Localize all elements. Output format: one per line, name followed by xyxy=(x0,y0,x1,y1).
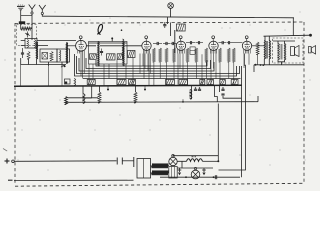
wire choke left lead xyxy=(177,161,186,168)
dashed enclosure border bottom xyxy=(15,183,304,186)
IF transformer secondary winding (x123) xyxy=(123,42,124,67)
terminal blob xyxy=(309,34,312,37)
tube V3 xyxy=(176,41,185,50)
tube V2 top cap xyxy=(145,36,148,41)
resistor box R22 xyxy=(117,80,126,85)
IF shield box xyxy=(89,42,128,65)
diode load resistor R12 xyxy=(186,48,189,62)
wire PS bottom rail xyxy=(160,176,240,178)
IF2 tall winding xyxy=(123,39,124,59)
output transformer primary xyxy=(264,41,265,60)
capacitor C16 xyxy=(198,87,201,90)
resistor R1 xyxy=(27,52,30,60)
speaker transformer core xyxy=(281,44,282,60)
tube V3 pin leads xyxy=(178,49,184,54)
battery plus sign xyxy=(5,159,10,164)
wire OT bottom leads xyxy=(264,59,269,65)
wire C13 to V5 grid xyxy=(233,42,242,44)
capacitor C13 xyxy=(227,41,234,44)
wire antenna A2 to top line xyxy=(42,15,48,17)
pencil mark xyxy=(3,149,7,152)
tube V1 pin leads xyxy=(78,50,84,54)
capacitor C10 xyxy=(186,41,195,44)
inductance script letter l xyxy=(97,24,102,34)
tube V1 xyxy=(76,40,87,51)
wire bus loop 3 xyxy=(79,58,214,71)
junction dot xyxy=(144,86,146,91)
tube V4 top cap xyxy=(212,36,215,41)
dashed enclosure border right xyxy=(303,22,305,183)
wire grid cap feeds xyxy=(86,45,122,47)
tall wire x174.8 xyxy=(174,30,176,53)
junction dot below output xyxy=(255,64,265,66)
choke winding on bus xyxy=(74,79,75,86)
padder capacitor C2 xyxy=(21,48,24,58)
volume control box xyxy=(190,47,195,54)
wire top of IF xyxy=(89,42,128,44)
tube V1 top cap xyxy=(79,36,82,41)
fuse connector top xyxy=(117,158,133,165)
rectifier tube V6 xyxy=(169,155,177,166)
battery plus terminal xyxy=(12,160,15,163)
dashed enclosure border left xyxy=(14,23,16,185)
wire windings joins xyxy=(151,166,170,173)
filter capacitor C21 plus diode mark xyxy=(178,168,182,175)
resistor R14 xyxy=(205,48,208,62)
speaker dashed box xyxy=(273,38,304,63)
ballast tube V7 xyxy=(191,167,200,179)
wire cluster2 bottom link xyxy=(223,96,241,98)
wire R18 lower lead xyxy=(257,55,259,65)
battery minus sign xyxy=(8,179,13,181)
bias cell coil xyxy=(190,90,192,100)
wire cluster2 step lead xyxy=(215,86,218,102)
dashed gang box xyxy=(17,25,37,46)
wire drops to bus xyxy=(21,54,249,86)
capacitor C18 xyxy=(221,94,224,95)
tube V3 top cap xyxy=(179,36,182,41)
wire heater line upper xyxy=(66,97,98,98)
wire below output xyxy=(254,64,304,66)
wire xyxy=(21,24,32,29)
resistor R2 hatch xyxy=(50,52,53,61)
coupling capacitor C8 xyxy=(163,42,170,45)
wire minus lead xyxy=(14,179,134,181)
output transformer core xyxy=(266,41,267,59)
variable capacitor C1 xyxy=(25,32,30,38)
IF transformer primary winding (x98) xyxy=(98,42,99,67)
antenna A2 xyxy=(39,5,46,14)
antenna trimmer coil L1 xyxy=(21,27,32,30)
grid resistor R15 xyxy=(219,48,222,62)
vibrator box xyxy=(134,157,151,178)
wire speaker box bottom xyxy=(278,60,285,65)
junction dot AVC node xyxy=(64,65,66,67)
padding capacitor C5 xyxy=(100,49,103,56)
rectifier box xyxy=(169,167,177,179)
mixer section box xyxy=(40,49,57,62)
vibrator transformer winding upper xyxy=(152,163,169,168)
resistor R10 vertical xyxy=(165,48,168,62)
resistor box R24 xyxy=(166,80,175,85)
resistor box R23 xyxy=(129,80,136,85)
resistor box R29 xyxy=(231,80,238,85)
wire PS mid rail xyxy=(177,167,213,169)
wire IF to V2 xyxy=(112,38,142,46)
capacitor C23 on rail xyxy=(213,175,217,179)
junction dot xyxy=(111,37,113,39)
tube V5 pin leads xyxy=(244,49,250,54)
wire rectifier plate feed xyxy=(173,155,218,156)
coupling capacitor C12 xyxy=(218,41,226,44)
resistor R8 vertical xyxy=(153,48,156,62)
wire antenna A1 lead down xyxy=(31,14,33,40)
oscillator coil L2 (tall winding) xyxy=(37,42,38,59)
filter choke L6 xyxy=(187,159,203,162)
osc coil box xyxy=(57,49,70,62)
junction dot rail xyxy=(185,176,187,178)
wire top horizontal line xyxy=(48,16,294,18)
wire R30 R31 tops xyxy=(100,86,136,103)
tube V5 top cap xyxy=(245,36,248,41)
wire V1 plate line xyxy=(67,45,76,47)
resistor R17 xyxy=(232,48,235,62)
wire bus loop 1 xyxy=(96,60,207,66)
resistor box R21 xyxy=(87,80,95,85)
wire B+ vertical from top line xyxy=(292,18,294,36)
resistor box R26 xyxy=(200,80,205,85)
junction dot speck xyxy=(121,29,123,31)
resistor box R27 xyxy=(207,80,214,85)
wire x294 down from top xyxy=(253,65,255,72)
osc coil winding b (dark) xyxy=(67,43,68,64)
wire bus loop 2 xyxy=(86,58,211,69)
junction dot choke out xyxy=(217,160,219,162)
wire bottom of input section xyxy=(21,58,66,65)
external speaker jack xyxy=(309,46,316,54)
resistor R30 xyxy=(98,92,101,103)
cathode resistor R18 xyxy=(256,42,259,55)
wire plus lead xyxy=(14,160,116,163)
coupling capacitor C7 xyxy=(153,42,162,45)
resistor box R25 xyxy=(179,80,188,85)
wire PS vertical pair a xyxy=(241,66,243,177)
wire choke link xyxy=(83,86,92,98)
wire bus loop 4 xyxy=(77,56,240,74)
lead-in capacitor block (filled) xyxy=(19,21,25,24)
junction dot on heater bus xyxy=(182,99,184,103)
capacitor C20 xyxy=(163,22,166,28)
antenna A1 xyxy=(29,5,36,15)
wire speaker top connections xyxy=(273,41,295,44)
output transformer secondary xyxy=(269,41,270,60)
capacitor C11 xyxy=(196,41,204,44)
tube V2 pin leads xyxy=(143,49,149,54)
capacitor C15 xyxy=(194,87,197,90)
wire V5 plate to OT xyxy=(252,45,264,47)
vibrator transformer winding lower xyxy=(152,170,169,175)
dashed enclosure border top xyxy=(15,22,304,23)
wire OT top leads xyxy=(265,36,269,40)
resistor R31 xyxy=(134,92,137,103)
capacitor C9 xyxy=(171,42,177,45)
antenna coil secondary xyxy=(34,40,35,48)
resistor R16 xyxy=(227,48,230,62)
ground symbol (earth) xyxy=(17,5,25,10)
resistor box R4 xyxy=(90,54,97,60)
loudspeaker xyxy=(291,46,300,57)
wire lamp lead down xyxy=(170,8,172,17)
resistor R11 vertical xyxy=(173,48,176,62)
tube V4 pin leads xyxy=(210,49,216,54)
filter capacitor C22 diode mark xyxy=(202,168,206,175)
wire bias cluster xyxy=(190,86,192,99)
tube V4 xyxy=(209,41,218,50)
wire choke right lead xyxy=(203,160,219,162)
junction dot xyxy=(107,86,109,91)
resistor R20 box xyxy=(176,24,185,31)
heater bus resistor xyxy=(65,97,68,105)
wire B+ feed vertical x218.3 xyxy=(217,104,219,162)
tube V2 xyxy=(142,41,151,50)
wire bus line 6 xyxy=(83,78,241,80)
pilot lamp P1 xyxy=(168,3,174,9)
speaker transformer winding a xyxy=(278,44,279,61)
wire left boxes to bus xyxy=(49,62,63,66)
wire lamp net down to V3 xyxy=(170,23,172,37)
capacitor C17 xyxy=(221,87,224,90)
main chassis bus (thick) xyxy=(14,84,242,87)
wire ground tee to antenna xyxy=(21,15,32,17)
wire heater right bend xyxy=(257,96,259,102)
resistor box R5 xyxy=(107,54,116,60)
wire ground lead down xyxy=(20,10,22,22)
choke label marks xyxy=(192,156,197,158)
electrolytic capacitor block xyxy=(65,79,71,84)
resistor box R28 xyxy=(220,80,226,85)
resistor R13 xyxy=(195,48,198,62)
antenna coil primary xyxy=(27,40,28,48)
wire row2 xyxy=(21,45,48,47)
potentiometer arrow xyxy=(61,65,65,67)
wire bus loop 5 xyxy=(75,54,237,76)
resistor box R7 xyxy=(128,51,136,58)
cluster 2 lead xyxy=(219,86,221,92)
wire PS vertical pair b xyxy=(219,65,246,170)
trimmer box with cross xyxy=(42,53,48,60)
resistor box R6 xyxy=(117,54,122,60)
antenna coil box T1 xyxy=(25,39,37,49)
heater choke L5 xyxy=(83,94,85,104)
wire input top xyxy=(21,40,76,42)
resistor R9 vertical xyxy=(159,48,162,62)
wire voice coil line out xyxy=(264,35,311,36)
wire lamp branch down to chassis xyxy=(167,17,169,24)
speaker transformer winding b xyxy=(285,44,286,61)
tube V5 xyxy=(242,41,251,50)
osc coil winding a xyxy=(60,50,61,61)
heater bus line xyxy=(66,102,258,105)
